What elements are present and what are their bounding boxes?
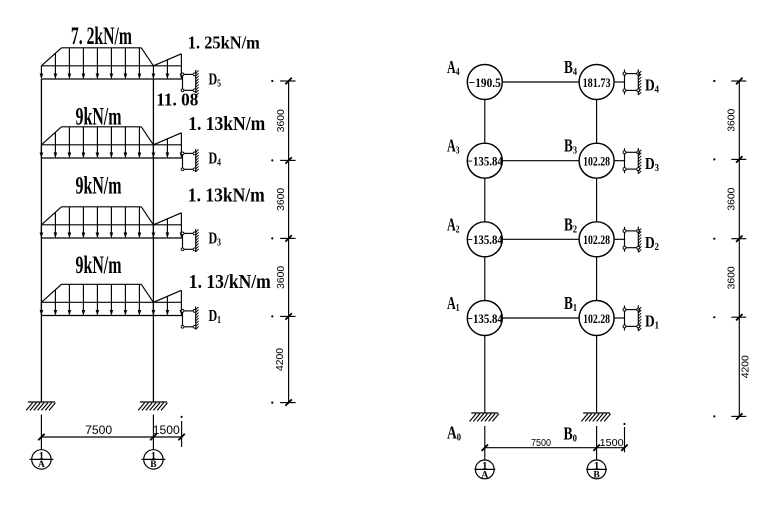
- axis bubble A (right): [474, 460, 495, 480]
- beam floor 4: [41, 78, 182, 80]
- beam A1-B1: [502, 317, 579, 319]
- column A segment 2: [484, 178, 486, 222]
- fixed support B: [138, 402, 167, 410]
- svg-text:3600: 3600: [276, 109, 287, 132]
- distributed load outline floor 4: [41, 48, 181, 66]
- column A lower segment: [484, 336, 486, 414]
- dimension line 7500/1500 (left diagram): [38, 434, 185, 440]
- node B1 circle: [579, 301, 614, 336]
- storey dimension line (right diagram): [713, 78, 746, 420]
- column B (left diagram): [152, 79, 154, 402]
- svg-text:102.28: 102.28: [583, 311, 610, 326]
- svg-text:1500: 1500: [600, 437, 624, 449]
- svg-text:7. 2kN/m: 7. 2kN/m: [71, 23, 132, 50]
- node B2 circle: [579, 222, 614, 257]
- extension line below support A: [40, 415, 42, 450]
- svg-text:3600: 3600: [727, 108, 738, 131]
- link support D3: [623, 148, 641, 174]
- link support D4: [623, 69, 641, 95]
- connector B3 to D3: [614, 160, 624, 162]
- link support D4: [181, 149, 199, 172]
- column A segment 3: [484, 257, 486, 301]
- fixed support A: [26, 402, 55, 410]
- column B segment 2: [596, 178, 598, 222]
- extension below support B0: [596, 426, 598, 460]
- dimension line 7500/1500 (right diagram): [482, 445, 628, 451]
- svg-text:3600: 3600: [276, 265, 287, 288]
- column B segment 1: [596, 100, 598, 144]
- svg-text:9kN/m: 9kN/m: [76, 252, 122, 279]
- node B3 circle: [579, 143, 614, 178]
- svg-text:A: A: [38, 460, 45, 470]
- load hatch verticals floor 2: [55, 207, 167, 225]
- svg-text:7500: 7500: [85, 425, 112, 437]
- distributed load outline floor 2: [41, 207, 181, 225]
- svg-text:11. 08: 11. 08: [156, 90, 198, 110]
- svg-text:−135.84: −135.84: [467, 154, 503, 169]
- svg-text:−190.5: −190.5: [469, 75, 501, 90]
- axis bubble A (left): [30, 450, 54, 470]
- beam A2-B2: [502, 238, 579, 240]
- link support D5: [181, 70, 199, 96]
- connector B4 to D4: [614, 81, 624, 83]
- svg-text:3600: 3600: [276, 187, 287, 210]
- axis bubble B (right): [586, 460, 607, 480]
- load hatch verticals floor 4: [55, 48, 167, 66]
- node A3 circle: [467, 143, 502, 178]
- link support D1: [181, 306, 199, 329]
- svg-text:3600: 3600: [727, 187, 738, 210]
- svg-text:4200: 4200: [741, 355, 752, 378]
- column A segment 1: [484, 100, 486, 144]
- column B segment 3: [596, 257, 598, 301]
- beam floor 2: [41, 237, 182, 239]
- svg-text:1. 13kN/m: 1. 13kN/m: [188, 114, 265, 135]
- svg-text:1. 13kN/m: 1. 13kN/m: [188, 186, 265, 207]
- node A2 circle: [467, 222, 502, 257]
- load arrows floor 1: [40, 302, 184, 315]
- node A1 circle: [467, 301, 502, 336]
- link support D1: [623, 305, 641, 331]
- load arrows floor 2: [40, 225, 184, 238]
- extension line below support B: [152, 415, 154, 450]
- svg-text:102.28: 102.28: [583, 154, 610, 169]
- load hatch verticals floor 1: [55, 284, 167, 302]
- svg-text:B: B: [150, 460, 157, 470]
- column B lower segment: [596, 336, 598, 414]
- svg-text:B: B: [593, 470, 600, 480]
- svg-text:1500: 1500: [153, 425, 180, 437]
- svg-text:9kN/m: 9kN/m: [76, 173, 122, 200]
- axis bubble B (left): [142, 450, 166, 470]
- extension below support A0: [484, 426, 486, 460]
- svg-text:4200: 4200: [275, 348, 286, 371]
- load arrows floor 4: [40, 66, 184, 79]
- distributed load outline floor 1: [41, 284, 181, 302]
- beam A4-B4: [502, 81, 579, 83]
- beam floor 1: [41, 315, 182, 317]
- svg-text:181.73: 181.73: [583, 75, 611, 90]
- svg-text:−135.84: −135.84: [467, 311, 503, 326]
- load arrows floor 3: [40, 145, 184, 158]
- load hatch verticals floor 3: [55, 127, 167, 145]
- storey dimension line (left diagram): [271, 78, 295, 406]
- column A (left diagram): [40, 79, 42, 402]
- svg-text:−135.84: −135.84: [467, 232, 503, 247]
- extension line at cantilever tip: [181, 421, 183, 447]
- fixed support B0: [581, 413, 610, 421]
- svg-text:1. 25kN/m: 1. 25kN/m: [188, 33, 260, 53]
- beam floor 3: [41, 157, 182, 159]
- node B4 circle: [579, 65, 614, 100]
- svg-text:7500: 7500: [531, 438, 551, 449]
- node A4 circle: [467, 65, 502, 100]
- connector B2 to D2: [614, 238, 624, 240]
- svg-text:1. 13/kN/m: 1. 13/kN/m: [189, 272, 271, 293]
- link support D2: [623, 227, 641, 253]
- link support D3: [181, 229, 199, 252]
- svg-text:3600: 3600: [727, 266, 738, 289]
- beam A3-B3: [502, 160, 579, 162]
- svg-text:102.28: 102.28: [583, 232, 610, 247]
- connector B1 to D1: [614, 317, 624, 319]
- svg-text:A: A: [481, 470, 488, 480]
- extension at 1500 end (right diagram): [624, 427, 626, 452]
- fixed support A0: [470, 413, 499, 421]
- distributed load outline floor 3: [41, 127, 181, 145]
